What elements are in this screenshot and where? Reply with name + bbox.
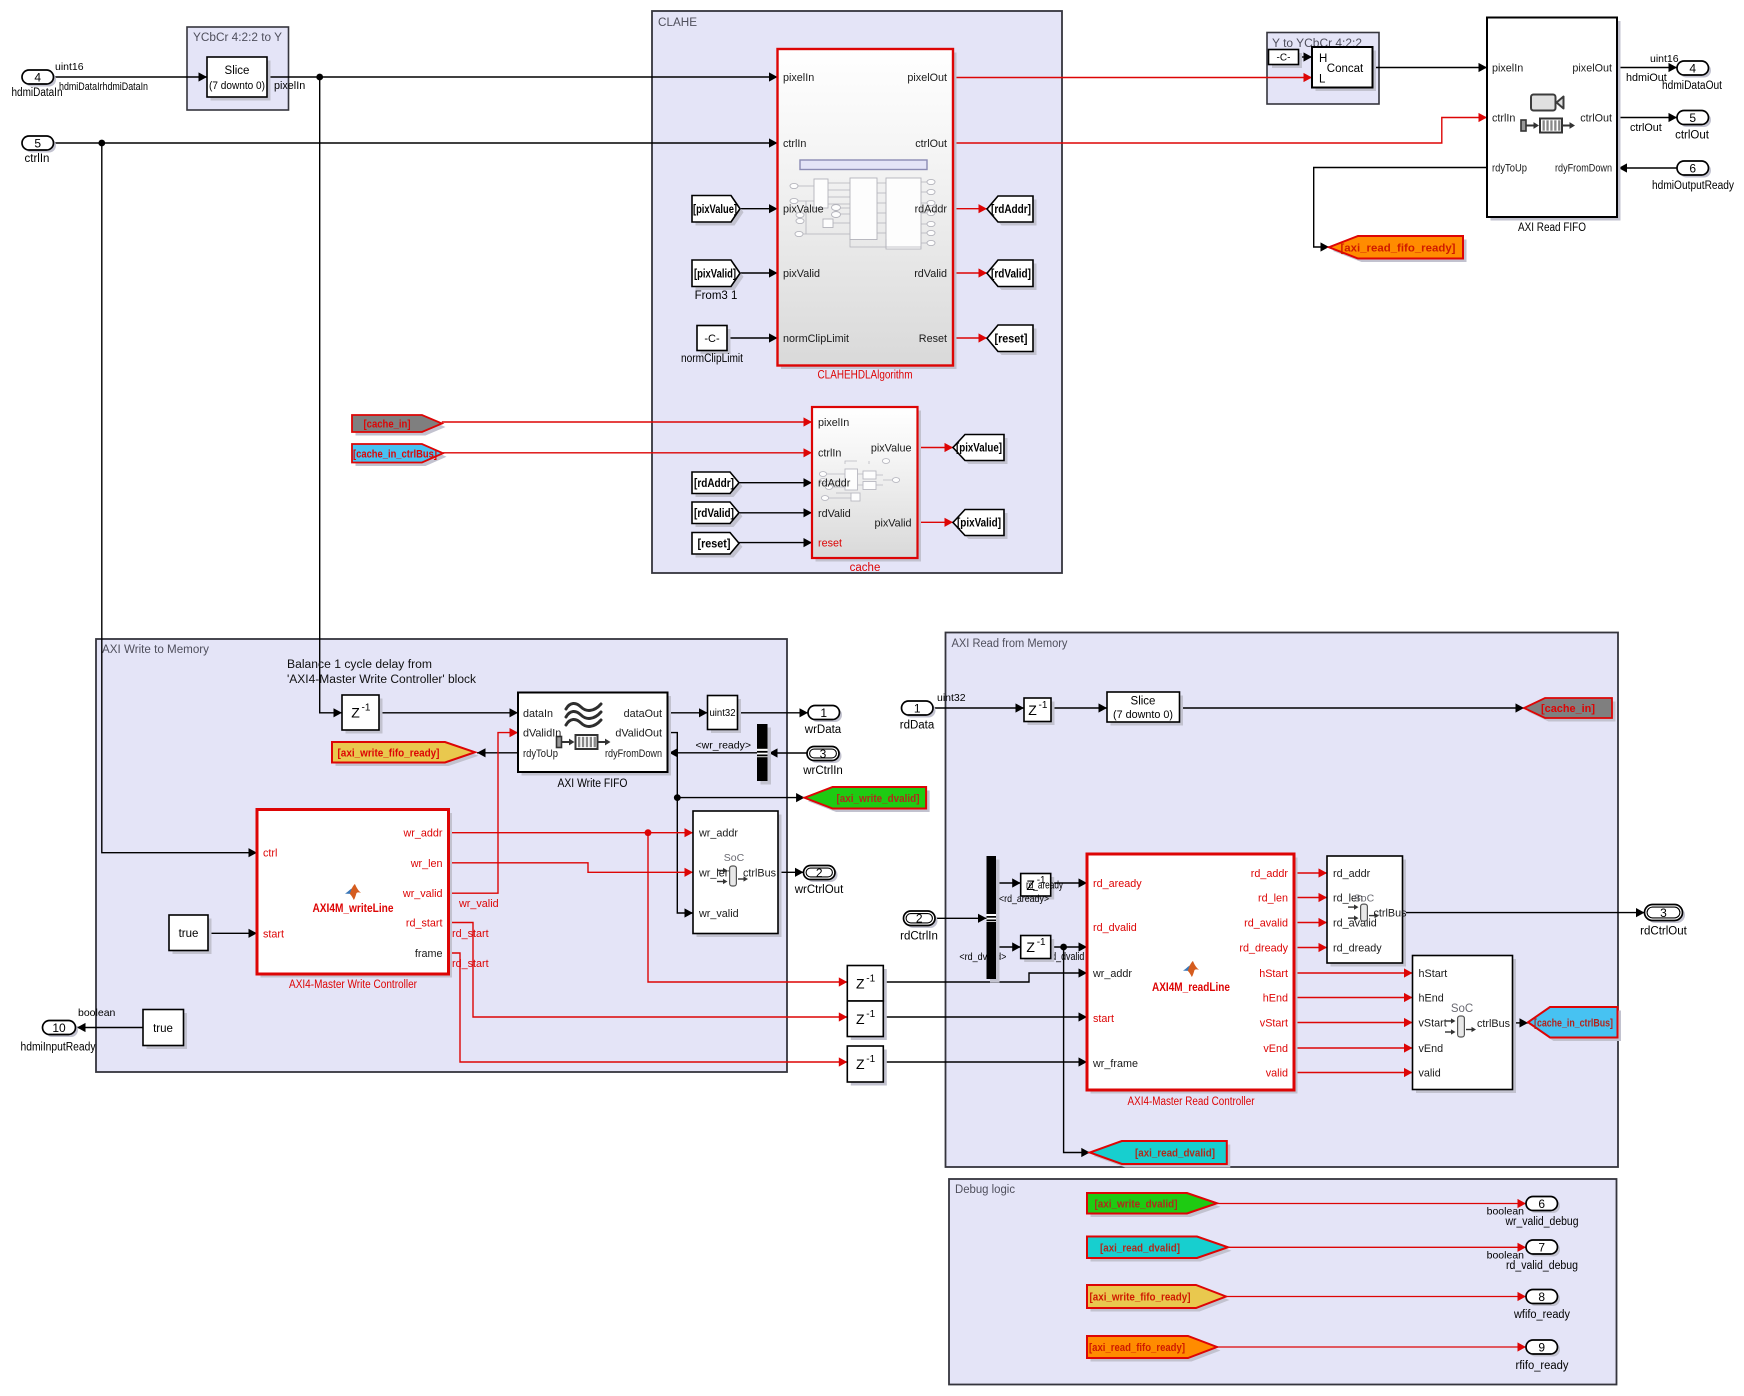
svg-text:[reset]: [reset] [995, 333, 1028, 345]
svg-text:cache: cache [850, 562, 881, 574]
node junction wr_addr branch [645, 829, 652, 836]
area CLAHE [652, 11, 1062, 573]
svg-text:ctrl: ctrl [263, 848, 277, 860]
svg-text:rdData: rdData [900, 720, 935, 732]
svg-text:pixelIn: pixelIn [783, 72, 814, 84]
subsystem CLAHEHDLAlgorithm [778, 49, 957, 382]
svg-text:<wr_ready>: <wr_ready> [696, 740, 751, 752]
svg-text:'AXI4-Master Write Controller': 'AXI4-Master Write Controller' block [287, 674, 476, 686]
svg-text:reset: reset [818, 538, 842, 550]
svg-text:uint32: uint32 [937, 692, 966, 704]
svg-text:vStart: vStart [1260, 1018, 1288, 1030]
block Concat [1312, 47, 1376, 91]
wire wr_addr branch down to delay1 [648, 833, 847, 987]
svg-text:ctrlOut: ctrlOut [915, 138, 947, 150]
svg-text:rd_addr: rd_addr [1251, 868, 1289, 880]
svg-text:[pixValue]: [pixValue] [693, 204, 737, 216]
svg-text:[pixValid]: [pixValid] [694, 268, 736, 280]
node junction ctrlIn branch [98, 140, 105, 147]
wire readLine rd port 2 to SoC bus creator [1294, 893, 1327, 902]
subsystem AXI Write FIFO [518, 693, 671, 791]
svg-text:ctrlOut: ctrlOut [1675, 130, 1710, 142]
goto tag rdValid [987, 260, 1037, 290]
wire Reset to Goto reset [953, 333, 987, 342]
svg-text:<rd_aready>: <rd_aready> [999, 893, 1049, 905]
svg-text:hEnd: hEnd [1263, 993, 1288, 1005]
svg-text:[axi_read_fifo_ready]: [axi_read_fifo_ready] [1341, 242, 1456, 254]
svg-text:AXI4M_writeLine: AXI4M_writeLine [313, 903, 394, 915]
wire cache pixValue to Goto [918, 443, 954, 452]
from tag axi_read_fifo_ready debug [1087, 1336, 1221, 1362]
svg-text:[rdValid]: [rdValid] [694, 508, 734, 520]
svg-text:[cache_in_ctrlBus]: [cache_in_ctrlBus] [353, 448, 437, 460]
svg-text:Slice: Slice [225, 65, 250, 77]
svg-text:rdyToUp: rdyToUp [1492, 163, 1527, 175]
svg-text:rd_dready: rd_dready [1333, 943, 1382, 955]
svg-text:[cache_in_ctrlBus]: [cache_in_ctrlBus] [1534, 1017, 1613, 1029]
svg-text:[cache_in]: [cache_in] [364, 419, 411, 431]
wire bus selector to delay rd_aready [996, 878, 1021, 887]
constant -C- concat [1269, 50, 1303, 69]
svg-text:[pixValue]: [pixValue] [956, 443, 1002, 455]
bus creator SoC read video [1413, 956, 1517, 1094]
outport 10 hdmiInputReady [21, 1021, 96, 1054]
wire wr_valid up to FIFO dValidIn [449, 728, 519, 910]
svg-text:frame: frame [415, 948, 443, 960]
svg-text:hdmiInputReady: hdmiInputReady [21, 1042, 96, 1054]
svg-text:[axi_read_dvalid]: [axi_read_dvalid] [1100, 1242, 1180, 1254]
svg-text:5: 5 [34, 136, 41, 150]
inport 4 hdmiDataIn [12, 70, 63, 99]
wire From reset to cache [739, 538, 812, 547]
wire From rdValid to cache [739, 508, 812, 517]
svg-text:[axi_write_dvalid]: [axi_write_dvalid] [1095, 1198, 1178, 1210]
svg-text:ctrlOut: ctrlOut [1580, 113, 1612, 125]
svg-text:-1: -1 [1037, 937, 1046, 948]
svg-text:4: 4 [34, 70, 41, 84]
wire readLine rd port 4 to SoC bus creator [1294, 943, 1327, 952]
svg-text:2: 2 [816, 866, 823, 880]
constant normClipLimit [681, 326, 744, 366]
svg-text:uint32: uint32 [710, 707, 736, 719]
subsystem cache [812, 407, 921, 574]
svg-text:vEnd: vEnd [1419, 1043, 1444, 1055]
wire wr_len to SoC [449, 863, 694, 877]
goto tag axi_write_dvalid [805, 787, 930, 812]
svg-text:[reset]: [reset] [698, 538, 731, 550]
svg-text:YCbCr 4:2:2 to Y: YCbCr 4:2:2 to Y [193, 32, 282, 44]
svg-text:normClipLimit: normClipLimit [681, 353, 744, 365]
outport 1 wrData [804, 706, 842, 737]
wire hdmiDataIn to Slice [54, 61, 208, 93]
inport 2 rdCtrlIn [900, 911, 938, 943]
wire From axi_write_dvalid to port6 [1217, 1199, 1526, 1218]
from tag axi_read_dvalid debug [1087, 1237, 1232, 1262]
outport 6 wr_valid_debug [1505, 1197, 1579, 1229]
annotation balance delay [287, 659, 476, 686]
svg-text:rdAddr: rdAddr [818, 478, 851, 490]
svg-text:wfifo_ready: wfifo_ready [1513, 1309, 1570, 1321]
svg-text:CLAHE: CLAHE [658, 17, 697, 29]
svg-text:AXI4-Master Write Controller: AXI4-Master Write Controller [289, 979, 417, 991]
svg-text:-1: -1 [866, 1009, 875, 1020]
svg-text:ctrlIn: ctrlIn [1492, 113, 1515, 125]
outport 9 rfifo_ready [1516, 1340, 1569, 1372]
svg-text:pixelOut: pixelOut [1572, 63, 1612, 75]
wire readLine video port 5 to SoC bus creator 2 [1294, 1068, 1413, 1077]
svg-text:wr_len: wr_len [698, 867, 731, 879]
wire bus selector wr_ready to rdyFromDown [669, 740, 757, 758]
svg-text:SoC: SoC [1354, 893, 1375, 905]
wire readLine video port 2 to SoC bus creator 2 [1294, 993, 1413, 1002]
svg-text:[axi_read_fifo_ready]: [axi_read_fifo_ready] [1089, 1342, 1185, 1354]
wire readLine video port 4 to SoC bus creator 2 [1294, 1043, 1413, 1052]
svg-text:ctrlIn: ctrlIn [783, 138, 806, 150]
svg-text:3: 3 [820, 747, 827, 761]
svg-text:rdCtrlIn: rdCtrlIn [900, 931, 938, 943]
wire SoC2 ctrlBus to Goto cache_in_ctrlBus [1513, 1018, 1529, 1027]
bus selector write [757, 724, 771, 785]
svg-text:vStart: vStart [1419, 1018, 1447, 1030]
svg-text:rd_avalid: rd_avalid [1244, 918, 1288, 930]
svg-text:normClipLimit: normClipLimit [783, 333, 849, 345]
svg-text:[rdAddr]: [rdAddr] [991, 204, 1031, 216]
unit delay Z-1 rd_aready [999, 874, 1063, 906]
svg-text:-C-: -C- [1277, 53, 1291, 64]
wire readLine rd port 3 to SoC bus creator [1294, 918, 1327, 927]
svg-text:valid: valid [1419, 1068, 1441, 1080]
wire From pixValid to CLAHEHDL [740, 268, 778, 277]
goto tag reset [987, 325, 1037, 355]
svg-text:1: 1 [914, 701, 921, 715]
svg-text:pixelIn: pixelIn [274, 80, 305, 92]
wire delay3 to readLine wr_frame [883, 1057, 1087, 1066]
svg-text:rd_start: rd_start [452, 928, 489, 940]
svg-text:pixValid: pixValid [874, 517, 911, 529]
svg-text:hdmiDataOut: hdmiDataOut [1662, 80, 1723, 92]
svg-text:7: 7 [1538, 1240, 1545, 1254]
unit delay Z-1 wr_addr branch [847, 966, 887, 1005]
outport 2 wrCtrlOut [794, 866, 844, 897]
svg-text:dValidIn: dValidIn [523, 728, 561, 740]
svg-text:rdValid: rdValid [914, 268, 947, 280]
svg-text:AXI4M_readLine: AXI4M_readLine [1152, 982, 1230, 994]
unit delay Z-1 write [342, 695, 383, 734]
svg-text:rdValid: rdValid [818, 508, 851, 520]
svg-text:AXI Read from Memory: AXI Read from Memory [952, 638, 1068, 650]
svg-text:-1: -1 [866, 1054, 875, 1065]
wire delay1 to readLine wr_addr [883, 968, 1087, 982]
svg-text:[axi_write_dvalid]: [axi_write_dvalid] [837, 793, 920, 805]
wire rdyToUp to axi_read_fifo_ready [1314, 168, 1487, 252]
svg-text:AXI Write FIFO: AXI Write FIFO [558, 778, 628, 790]
svg-text:Z: Z [351, 705, 360, 721]
svg-text:wrCtrlIn: wrCtrlIn [802, 765, 843, 777]
wire readLine video port 3 to SoC bus creator 2 [1294, 1018, 1413, 1027]
svg-text:pixelIn: pixelIn [818, 417, 849, 429]
svg-text:dValidOut: dValidOut [615, 728, 662, 740]
goto tag pixValid [953, 510, 1008, 540]
matlab function AXI4M_writeLine [257, 810, 452, 992]
svg-text:wr_valid: wr_valid [458, 898, 499, 910]
svg-text:wr_addr: wr_addr [698, 828, 738, 840]
svg-text:rd_dvalid: rd_dvalid [1093, 922, 1137, 934]
wire ctrlIn to CLAHE [54, 138, 778, 147]
svg-text:[axi_write_fifo_ready]: [axi_write_fifo_ready] [338, 747, 440, 759]
svg-text:3: 3 [1660, 906, 1667, 920]
node junction rd_dvalid branch [1060, 944, 1067, 951]
wire delay to readLine rd_aready [1051, 878, 1087, 887]
wire From axi_read_dvalid to port7 [1228, 1243, 1526, 1262]
svg-text:AXI Write to Memory: AXI Write to Memory [102, 644, 209, 656]
area Y to YCbCr 4:2:2 [1267, 33, 1379, 105]
wire Concat to AXI Read FIFO pixelIn [1373, 63, 1488, 72]
wire cache pixValid to Goto [918, 518, 954, 527]
wire rdValid to Goto [953, 268, 987, 277]
svg-text:4: 4 [1689, 61, 1696, 75]
goto tag rdAddr [987, 196, 1037, 226]
outport 3 rdCtrlOut [1640, 905, 1687, 938]
svg-text:Z: Z [856, 975, 865, 991]
svg-text:dataIn: dataIn [523, 708, 553, 720]
svg-text:[rdValid]: [rdValid] [991, 268, 1031, 280]
svg-text:dataOut: dataOut [624, 708, 662, 720]
svg-text:hdmiOut: hdmiOut [1626, 72, 1667, 84]
from tag reset [692, 533, 743, 558]
svg-text:-C-: -C- [704, 333, 720, 345]
svg-text:pixValue: pixValue [783, 204, 824, 216]
wire delay to Slice read [1051, 703, 1107, 712]
svg-text:Z: Z [856, 1011, 865, 1027]
svg-text:uint16: uint16 [1650, 53, 1679, 65]
svg-text:hStart: hStart [1259, 968, 1288, 980]
svg-text:wr_addr: wr_addr [402, 828, 442, 840]
svg-text:rd_dready: rd_dready [1239, 943, 1288, 955]
wire constant to Concat H [1299, 52, 1313, 61]
svg-text:start: start [1093, 1013, 1114, 1025]
from tag rdValid [692, 502, 743, 527]
block Slice read [1107, 692, 1183, 726]
svg-text:wrCtrlOut: wrCtrlOut [794, 884, 844, 896]
wire SoC ctrlBus to wrCtrlOut [778, 868, 804, 877]
wire SoC ctrlBus to rdCtrlOut [1403, 908, 1645, 917]
svg-text:hdmiDataIn: hdmiDataIn [12, 87, 63, 99]
svg-text:boolean: boolean [78, 1007, 116, 1019]
outport 7 rd_valid_debug [1506, 1240, 1578, 1272]
bus creator SoC write [693, 811, 782, 937]
svg-text:Balance 1 cycle delay from: Balance 1 cycle delay from [287, 659, 432, 671]
svg-text:wr_frame: wr_frame [1092, 1058, 1138, 1070]
svg-text:Z: Z [1026, 939, 1035, 955]
wire wrCtrlIn to bus selector [769, 748, 807, 757]
svg-text:wr_addr: wr_addr [1092, 968, 1132, 980]
wire pixelIn branch down to delay [320, 77, 342, 717]
svg-text:rdAddr: rdAddr [915, 204, 948, 216]
from tag pixValue [692, 196, 744, 226]
from tag pixValid [692, 260, 744, 302]
constant true 2 [143, 1010, 187, 1050]
from tag rdAddr [692, 472, 743, 497]
wire rdAddr to Goto [953, 204, 987, 213]
svg-text:pixelIn: pixelIn [1492, 63, 1523, 75]
svg-text:6: 6 [1689, 161, 1696, 175]
outport 8 wfifo_ready [1513, 1290, 1570, 1322]
unit delay Z-1 rd_start branch [847, 1001, 887, 1040]
svg-text:(7 downto 0): (7 downto 0) [1113, 709, 1173, 721]
svg-text:pixelOut: pixelOut [907, 72, 947, 84]
from tag axi_write_fifo_ready debug [1087, 1285, 1230, 1312]
wire uint32 to wrData [738, 708, 809, 717]
from tag cache_in_ctrlBus [352, 444, 447, 466]
area AXI Read from Memory [946, 633, 1619, 1168]
svg-text:SoC: SoC [1451, 1003, 1473, 1015]
svg-text:8: 8 [1538, 1290, 1545, 1304]
wire true to hdmiInputReady [77, 1007, 143, 1032]
wire rd_start down to delay2 [449, 923, 848, 1022]
inport 5 ctrlIn [22, 136, 56, 165]
svg-text:rd_start: rd_start [406, 918, 443, 930]
svg-text:rdyFromDown: rdyFromDown [605, 748, 662, 760]
inport 6 hdmiOutputReady [1652, 161, 1734, 192]
goto tag axi_write_fifo_ready [332, 742, 479, 766]
unit delay Z-1 read [1024, 698, 1055, 725]
matlab function AXI4M_readLine [1087, 854, 1298, 1108]
wire wr_addr to SoC [449, 828, 694, 837]
svg-text:[axi_write_fifo_ready]: [axi_write_fifo_ready] [1090, 1292, 1191, 1304]
unit delay Z-1 rd_dvalid [1021, 936, 1054, 963]
svg-text:ctrlBus: ctrlBus [743, 867, 777, 879]
svg-text:2: 2 [916, 912, 923, 926]
node junction dvalid branch [674, 794, 681, 801]
block uint32 conversion [708, 696, 742, 734]
svg-text:Concat: Concat [1327, 63, 1364, 75]
svg-text:-1: -1 [362, 703, 371, 714]
svg-text:(7 downto 0): (7 downto 0) [209, 80, 265, 92]
goto tag axi_read_dvalid [1090, 1141, 1231, 1168]
wire From cache_in to cache pixelIn [442, 417, 812, 426]
svg-text:hStart: hStart [1419, 968, 1448, 980]
wire From cache_in_ctrlBus to cache ctrlIn [443, 448, 812, 457]
svg-text:AXI4-Master Read Controller: AXI4-Master Read Controller [1128, 1096, 1255, 1108]
svg-text:rd_aready: rd_aready [1026, 880, 1063, 892]
svg-text:From3 1: From3 1 [695, 290, 738, 302]
wire Slice pixelIn to CLAHE [267, 72, 778, 92]
svg-text:hdmiOutputReady: hdmiOutputReady [1652, 180, 1734, 192]
svg-text:wr_len: wr_len [410, 858, 443, 870]
svg-text:rdCtrlOut: rdCtrlOut [1640, 926, 1687, 938]
block Slice (7 downto 0) [207, 57, 271, 101]
constant true 1 [169, 915, 212, 954]
wire Slice to Goto cache_in [1180, 703, 1525, 712]
svg-text:rd_aready: rd_aready [1093, 878, 1142, 890]
goto tag cache_in_ctrlBus [1528, 1007, 1621, 1041]
area YCbCr 4:2:2 to Y [187, 27, 289, 110]
wire readLine rd port 1 to SoC bus creator [1294, 868, 1327, 877]
area Debug logic [949, 1179, 1617, 1385]
svg-text:true: true [153, 1023, 173, 1035]
svg-text:rd_start: rd_start [452, 958, 489, 970]
wire delay2 to readLine start [883, 1012, 1087, 1021]
wire ctrlIn branch down to writeLine ctrl [102, 143, 257, 857]
inport 3 wrCtrlIn [802, 747, 843, 778]
svg-text:vEnd: vEnd [1263, 1043, 1288, 1055]
subsystem AXI Read FIFO [1487, 18, 1621, 235]
svg-text:pixValue: pixValue [871, 443, 912, 455]
svg-text:Slice: Slice [1131, 696, 1156, 708]
svg-text:Reset: Reset [919, 333, 947, 345]
svg-text:[cache_in]: [cache_in] [1541, 703, 1595, 715]
wire From axi_read_fifo_ready to port9 [1217, 1342, 1526, 1351]
wire frame down to delay3 [449, 953, 848, 1067]
wire ctrlOut to AXI Read FIFO ctrlIn [953, 113, 1487, 143]
svg-text:L: L [1319, 74, 1326, 86]
inport 1 rdData [900, 701, 936, 732]
outport 4 hdmiDataOut [1662, 61, 1723, 92]
wire hdmiOutputReady to rdyFromDown [1619, 163, 1678, 172]
svg-text:-1: -1 [1039, 700, 1048, 711]
unit delay Z-1 frame branch [847, 1046, 887, 1086]
svg-text:6: 6 [1538, 1197, 1545, 1211]
svg-text:rfifo_ready: rfifo_ready [1516, 1360, 1569, 1372]
wire rdCtrlIn to bus selector read [935, 914, 987, 923]
svg-text:wr_valid: wr_valid [698, 908, 739, 920]
goto tag axi_read_fifo_ready [1329, 236, 1467, 262]
wire normClipLimit const to CLAHEHDL [727, 333, 778, 342]
svg-text:wrData: wrData [804, 724, 842, 736]
wire From rdAddr to cache [739, 478, 812, 487]
outport 5 ctrlOut [1675, 111, 1711, 142]
svg-text:rd_addr: rd_addr [1333, 868, 1371, 880]
svg-text:[pixValid]: [pixValid] [957, 518, 1001, 530]
wire delay to AXI Write FIFO dataIn [379, 708, 518, 717]
svg-text:ctrlBus: ctrlBus [1477, 1018, 1511, 1030]
svg-text:rd_len: rd_len [1258, 893, 1288, 905]
svg-text:10: 10 [52, 1021, 66, 1035]
svg-text:[axi_read_dvalid]: [axi_read_dvalid] [1135, 1148, 1215, 1160]
svg-text:ctrlIn: ctrlIn [25, 153, 50, 165]
svg-text:Debug logic: Debug logic [955, 1184, 1015, 1196]
from tag axi_write_dvalid debug [1087, 1193, 1221, 1217]
svg-text:ctrlBus: ctrlBus [1374, 908, 1408, 920]
wire pixelOut to Concat L [953, 73, 1312, 82]
svg-text:uint16: uint16 [55, 61, 84, 73]
wire pixelOut to hdmiDataOut [1617, 53, 1679, 84]
svg-text:rdyToUp: rdyToUp [523, 748, 558, 760]
wire readLine video port 1 to SoC bus creator 2 [1294, 968, 1413, 977]
wire delay to readLine rd_dvalid [959, 942, 1087, 963]
wire rd_dvalid branch to Goto axi_read_dvalid [1064, 947, 1090, 1157]
area AXI Write to Memory [96, 639, 787, 1072]
svg-text:rd_valid_debug: rd_valid_debug [1506, 1260, 1578, 1272]
goto tag cache_in [1524, 698, 1616, 722]
svg-text:Z: Z [1028, 702, 1037, 718]
wire From pixValue to CLAHEHDL [740, 204, 778, 213]
svg-text:1: 1 [820, 706, 827, 720]
svg-text:wr_valid_debug: wr_valid_debug [1505, 1216, 1579, 1228]
svg-text:Z: Z [856, 1056, 865, 1072]
wire From axi_write_fifo_ready to port8 [1226, 1292, 1526, 1301]
svg-text:wr_valid: wr_valid [402, 888, 443, 900]
svg-text:5: 5 [1689, 111, 1696, 125]
svg-text:AXI Read FIFO: AXI Read FIFO [1518, 222, 1586, 234]
svg-text:ctrlIn: ctrlIn [818, 448, 841, 460]
svg-text:SoC: SoC [724, 852, 745, 864]
wire rdyToUp to Goto axi_write_fifo_ready [477, 748, 518, 757]
bus creator SoC read ctrl [1327, 856, 1407, 967]
svg-text:pixValid: pixValid [783, 268, 820, 280]
svg-text:true: true [179, 928, 199, 940]
goto tag pixValue [953, 435, 1008, 465]
